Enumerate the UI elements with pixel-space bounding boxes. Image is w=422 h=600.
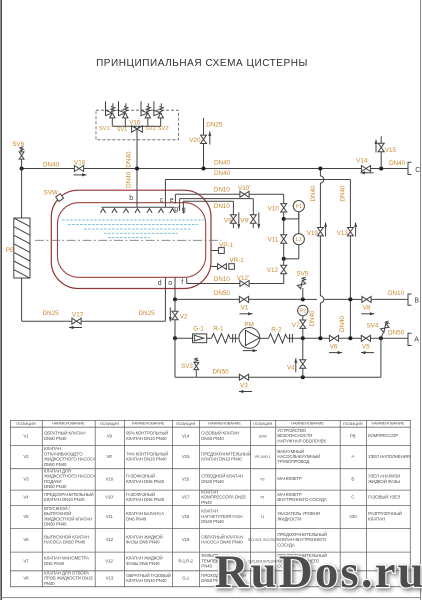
svg-text:VP-1/VR-1: VP-1/VR-1 [255,455,271,459]
node V7 column on L8 [301,336,305,340]
svg-text:V16: V16 [182,476,190,481]
wire: d-nozzle drop [164,277,166,321]
svg-text:V15: V15 [182,454,190,459]
label DN40 vertical V13 riser [340,185,347,202]
svg-text:DN50: DN50 [214,290,231,297]
svg-text:DN10: DN10 [214,276,231,283]
svg-text:A: A [414,337,419,344]
flow arrow at V15 [375,140,378,153]
svg-text:L1: L1 [296,237,302,243]
svg-text:SV2: SV2 [145,126,156,132]
svg-text:P2: P2 [261,477,265,481]
node V4 column on L9 [301,375,305,379]
svg-text:DN40: DN40 [339,315,346,332]
svg-text:ФАЗЫ DN6 PN40: ФАЗЫ DN6 PN40 [126,540,160,545]
svg-text:V12': V12' [237,275,249,282]
svg-text:V1: V1 [23,433,29,438]
label DN40 on L1 mid [214,160,231,167]
wire: SV5 stub [302,288,304,299]
svg-text:НАИМЕНОВАНИЕ: НАИМЕНОВАНИЕ [372,421,405,426]
svg-text:DN50: DN50 [388,329,405,336]
valve V3 [239,374,248,389]
pump PM [239,322,260,349]
wire: L6 DN10 line from nozzle f [187,278,240,284]
svg-text:V9: V9 [224,217,232,224]
svg-text:PB: PB [6,247,14,254]
label DN40 vertical above L1 [126,151,133,168]
svg-text:ЖИДКОЙ ФАЗЫ: ЖИДКОЙ ФАЗЫ [368,479,400,484]
flow arrow at V13 [354,223,357,237]
svg-text:V9': V9' [240,217,249,224]
wire: nozzle g dip tube [182,201,184,213]
level gauge L1 [293,234,304,245]
svg-text:R-2: R-2 [271,327,282,334]
flow arrow at V17 [69,326,82,329]
label DN50 on L9 [213,369,230,376]
relief valve V20 [189,135,206,144]
svg-text:PM: PM [244,322,253,329]
safety valve SV2' [154,101,164,126]
node junction at SV6/PB [20,167,24,171]
svg-text:V4: V4 [23,495,29,500]
wire: nozzle c riser [164,180,166,208]
svg-text:b: b [129,195,133,202]
svg-text:g': g' [174,206,179,213]
svg-text:V6: V6 [330,343,338,350]
node V13 riser on L8 [348,336,352,340]
flow arrow below pump [243,349,257,352]
svg-text:V4: V4 [287,364,295,371]
wire: V11 to V12 [283,243,285,265]
svg-text:V2: V2 [23,454,29,459]
legend table grid [10,420,411,587]
label DN10 on L3 [214,186,231,193]
wire: L7 liquid line (y=299.4) [175,298,408,300]
svg-text:f: f [181,279,183,286]
node o-line tee [173,297,177,301]
svg-text:V7: V7 [23,558,29,563]
svg-text:V10': V10' [238,185,250,192]
label SV2' [158,126,170,132]
label DN40 vertical V19 riser bottom [309,310,316,327]
svg-text:P1: P1 [261,496,265,500]
svg-text:V6: V6 [23,537,29,542]
svg-text:DN10: DN10 [214,186,231,193]
svg-text:DN40: DN40 [43,161,60,168]
nozzle label c [160,197,164,204]
svg-text:V7: V7 [292,322,300,329]
wire: L1 down to return [284,245,299,259]
label DN40 vertical V13 riser lower [339,315,346,332]
svg-text:SV6: SV6 [12,141,24,148]
svg-text:РВ: РВ [350,433,356,438]
nozzle label g [182,207,186,214]
svg-text:DN50 PN40: DN50 PN40 [44,484,67,489]
svg-text:DN25: DN25 [139,310,156,317]
wire: nozzle g' dip tube [179,199,181,211]
valve V7 [292,320,306,329]
wire: o-line down to L9 [175,338,196,377]
svg-text:V9': V9' [106,454,112,459]
wire: nozzle o drop [174,277,176,299]
node V20 on L1 [202,167,206,171]
svg-text:V10: V10 [268,205,280,212]
svg-text:НАИМЕНОВАНИЕ: НАИМЕНОВАНИЕ [132,421,165,426]
tank outer jacket [51,190,211,288]
valve V4 [287,360,306,372]
wire: PB down to DN25 line [21,278,23,321]
three-way valve V16 [129,120,142,133]
svg-text:КЛАПАН DN40 PN40: КЛАПАН DN40 PN40 [126,578,167,583]
svg-text:VR-1: VR-1 [229,257,244,264]
svg-text:B: B [414,297,419,304]
wire: V15 stub [380,136,382,168]
label DN50 at A [388,329,405,336]
svg-text:НАРУЖНАЯ ОБОЛОЧЕК: НАРУЖНАЯ ОБОЛОЧЕК [277,438,326,443]
node gauge branch [282,217,286,221]
valve V10 [268,204,287,213]
drawing frame right border [420,0,422,600]
wire: DN25 line (y=321.2) [22,320,166,322]
svg-text:V20: V20 [349,514,357,519]
svg-text:V11: V11 [106,514,114,519]
node V19 riser on L1 [318,167,322,171]
svg-text:o: o [168,280,172,287]
svg-text:DN25: DN25 [43,310,60,317]
svg-text:КЛАПАН DN10 PN40: КЛАПАН DN10 PN40 [201,457,242,462]
node V19 riser on L8 [318,336,322,340]
valve V2 [172,311,188,320]
valve V1 [239,296,248,311]
safety valve SV2 [141,101,151,126]
safety valve SV5 [296,271,308,289]
valve V12 [267,265,287,274]
flexible joint R-1 [212,325,236,343]
label SV1' [99,126,111,132]
svg-text:DN50 PN40: DN50 PN40 [44,436,67,441]
svg-text:ПОЗИЦИЯ: ПОЗИЦИЯ [16,421,35,426]
label DN10 on L4/L5 [214,203,231,210]
relief valve V15 [378,143,396,154]
wire: L9 line (y=377.2) [196,338,381,377]
svg-text:PN40: PN40 [201,563,212,568]
svg-text:c: c [160,197,164,204]
svg-text:DN50 PN40: DN50 PN40 [44,462,67,467]
safety device SVW [44,190,64,202]
svg-text:PN40: PN40 [201,500,212,505]
connection point B [408,294,419,305]
vacuum port VP-1 [211,242,233,253]
flow arrow at V20 [208,132,211,145]
svg-text:V18: V18 [74,160,86,167]
label DN10 on L6 [214,276,231,283]
liquid level line 2 [68,224,198,226]
svg-text:V14: V14 [182,433,190,438]
svg-text:ПОЗИЦИЯ: ПОЗИЦИЯ [253,421,272,426]
label DN40 at C [389,160,406,167]
svg-text:A: A [351,454,354,459]
nozzle label b [129,195,133,202]
wire: V19 riser from L1 [320,169,324,339]
liquid level line 3 [84,228,190,230]
valve V12' [237,275,249,287]
evaporator coil PB [6,218,30,278]
svg-text:SV1: SV1 [117,127,128,133]
svg-text:ПОЗИЦИЯ: ПОЗИЦИЯ [343,421,362,426]
svg-text:УЗЕЛ НАПОЛНЕНИЯ: УЗЕЛ НАПОЛНЕНИЯ [368,454,410,459]
svg-text:V19: V19 [182,537,190,542]
svg-text:V17: V17 [182,495,190,500]
valve V11 [268,235,287,244]
strainer G-1 [193,325,207,342]
label DN25 at V20 [206,122,223,129]
label DN40 at V18 [43,161,60,168]
svg-text:SV5: SV5 [296,271,308,278]
svg-text:V5: V5 [23,514,29,519]
svg-text:V13: V13 [337,230,349,237]
vent stub below V9' [252,223,254,228]
valve V2 on o-line [174,299,176,338]
wire: L5 line (y=201.3) [183,201,233,215]
legend table text [16,421,409,586]
wire: PB riser [21,169,23,219]
node o-line on L8 [173,336,177,340]
svg-text:DN40 PN40: DN40 PN40 [201,436,224,441]
check valve V19 [307,228,324,238]
svg-text:V10: V10 [106,476,114,481]
wire: V10 to junction [283,212,285,235]
svg-text:P2: P2 [300,308,307,314]
svg-text:ФАЗЫ DN6 PN40: ФАЗЫ DN6 PN40 [126,561,160,566]
label DN40 on L2 [214,170,231,177]
svg-text:V15: V15 [385,147,397,154]
svg-text:RuDos.ru: RuDos.ru [215,546,422,598]
svg-text:DN10: DN10 [388,290,405,297]
nozzle label e [170,197,174,204]
wire: branch to P1 column [284,212,299,219]
svg-text:B: B [351,476,354,481]
flow arrow at V14 [361,171,374,174]
svg-text:DN40: DN40 [340,185,347,202]
svg-text:G-1: G-1 [182,576,190,581]
flow arrow at V9' [257,213,260,229]
wire: L2 gas DN40 line (y=179.5) [165,180,350,228]
wire: V7 to L8 [302,328,304,338]
svg-text:V3: V3 [240,382,248,389]
svg-text:L1: L1 [261,515,265,519]
svg-text:V5: V5 [362,343,370,350]
liquid level line 4 [104,232,178,234]
svg-text:SV1': SV1' [99,126,111,132]
vent stub below V9 [232,223,234,228]
flexible joint R-2 [269,327,293,344]
wire: manifold header [112,125,160,127]
svg-text:DN10: DN10 [214,203,231,210]
title [96,58,308,69]
svg-text:SVW: SVW [44,190,58,197]
svg-text:НАСОСА DN40 PN40: НАСОСА DN40 PN40 [201,540,243,545]
node A junction [379,336,383,340]
svg-text:V10': V10' [105,495,113,500]
svg-text:C: C [351,495,354,500]
svg-text:НАИМЕНОВАНИЕ: НАИМЕНОВАНИЕ [208,421,241,426]
node V13 riser on B-line [348,297,352,301]
svg-text:V1: V1 [241,304,249,311]
svg-text:ПОЗИЦИЯ: ПОЗИЦИЯ [176,421,195,426]
wire: nozzle e riser [174,194,176,203]
nozzle label f [181,279,183,286]
safety valve SV6 [12,141,24,159]
node below V11 [282,257,286,261]
label DN50 on L7 [214,290,231,297]
svg-text:C: C [415,167,420,174]
svg-text:DN40 PN40: DN40 PN40 [201,519,224,524]
valve V10' [238,185,250,197]
svg-text:ЖИДКОСТИ: ЖИДКОСТИ [277,516,301,521]
svg-text:SV1,SV1',SV2,SV2': SV1,SV1',SV2,SV2' [248,538,278,542]
flow arrow at V18 [74,173,87,176]
valve V6 [329,335,338,350]
flow arrow at V3 [239,390,252,393]
wire: L3 DN10 line (y=194.3) [175,194,283,203]
wire: L4 line (y=198.6) [180,199,254,215]
svg-text:КЛАПАН DN6 PN40: КЛАПАН DN6 PN40 [126,479,165,484]
svg-text:R-1: R-1 [213,325,224,332]
svg-text:КЛАПАН DN10 PN40: КЛАПАН DN10 PN40 [44,497,85,502]
check valve V13 [337,228,354,238]
svg-text:DN6 PN40: DN6 PN40 [44,561,65,566]
svg-text:V17: V17 [72,312,84,319]
safety-valve manifold dashed enclosure [96,110,178,140]
flow arrow at V2 [169,308,172,322]
nozzle label d [158,280,162,287]
valve V9 [224,215,236,225]
wire: P2 to V7 [302,316,304,320]
safety valve SV4 [367,321,389,338]
wire: V12 down to L6 [249,274,284,284]
label DN25 left [43,310,60,317]
svg-text:V16: V16 [129,120,141,127]
safety valve SV1' [106,101,116,126]
svg-text:ПОЗИЦИЯ: ПОЗИЦИЯ [100,421,119,426]
svg-text:DN40: DN40 [214,160,231,167]
svg-text:V19: V19 [307,230,319,237]
svg-text:DN40: DN40 [214,170,231,177]
flow arrow at V19 [324,223,327,237]
svg-text:V12: V12 [106,537,114,542]
svg-text:SVW: SVW [259,434,268,438]
svg-text:DN40: DN40 [126,171,133,188]
safety valve SV3 [181,358,199,377]
svg-text:DN50: DN50 [213,369,230,376]
svg-text:V9: V9 [107,433,113,438]
svg-text:DN40: DN40 [309,310,316,327]
svg-text:КЛАПАН: КЛАПАН [368,516,385,521]
svg-text:DN25 PN40: DN25 PN40 [201,479,224,484]
svg-text:НАСОСА DN50 PN40: НАСОСА DN50 PN40 [44,540,86,545]
svg-text:КОМПРЕССОР: КОМПРЕССОР [368,433,398,438]
connection point C [408,162,420,174]
svg-text:НАИМЕНОВАНИЕ: НАИМЕНОВАНИЕ [52,421,85,426]
wire: V16 down to tank nozzle b [136,129,138,207]
spray header (sparger) with nozzles [100,207,175,213]
valve V9' [240,215,256,225]
svg-text:КЛАПАН DN6 PN40: КЛАПАН DN6 PN40 [126,497,165,502]
svg-text:G-1: G-1 [193,325,204,332]
svg-text:P1: P1 [296,204,303,210]
svg-text:V18: V18 [182,514,190,519]
label SV1 [117,127,128,133]
svg-text:ТРУБОПРОВОД: ТРУБОПРОВОД [277,459,309,464]
label SV2 [145,126,156,132]
svg-text:DN6 PN40: DN6 PN40 [126,516,147,521]
wire: SV6 stub [21,149,23,169]
svg-text:e: e [170,197,174,204]
nozzle label o [168,280,172,287]
svg-text:V13: V13 [106,576,114,581]
liquid level line 1 [62,219,204,221]
pressure gauge P1 [293,201,304,212]
vacuum relief VR-1 [211,257,244,269]
wire: V4 column [302,338,304,377]
svg-text:DN50 PN40: DN50 PN40 [44,522,67,527]
wire: P1 to L1 [298,212,300,234]
flow arrow at V5 [361,351,374,354]
wire: V13 riser [349,236,351,338]
flow arrow at V4 [294,358,297,372]
svg-text:SV2': SV2' [158,126,170,132]
tank centerline (dash-dot) [35,239,221,241]
label DN10 at B [388,290,405,297]
svg-text:ГАЗОВЫЙ УЗЕЛ: ГАЗОВЫЙ УЗЕЛ [368,495,400,500]
svg-text:PN40: PN40 [44,581,55,586]
svg-text:DN40: DN40 [389,160,406,167]
svg-text:V8: V8 [23,576,29,581]
drawing frame left border [0,0,2,600]
valve V5 [361,335,370,350]
valve V8 [362,296,371,311]
pressure gauge P2 [298,305,308,315]
svg-text:DN40: DN40 [126,151,133,168]
connection point A [408,333,419,345]
svg-text:ВНУТРЕННЕГО СОСУДА: ВНУТРЕННЕГО СОСУДА [277,497,327,502]
svg-text:V3: V3 [23,476,29,481]
wire: V20 stub [203,118,205,169]
svg-text:d: d [158,280,162,287]
safety valve SV1 [119,101,129,126]
svg-text:V12': V12' [105,558,113,563]
wire: L1 main DN40 header (y=168.5) [22,168,408,170]
svg-text:V20: V20 [189,137,201,144]
svg-text:DN40: DN40 [310,185,317,202]
label DN40 vertical V19 riser top [310,185,317,202]
svg-text:VP-1: VP-1 [219,242,233,249]
svg-text:НАИМЕНОВАНИЕ: НАИМЕНОВАНИЕ [291,421,324,426]
svg-text:КЛАПАН DN10 PN40: КЛАПАН DN10 PN40 [126,436,167,441]
valve V14 [356,157,370,171]
node V16 line on L1 [135,167,139,171]
svg-text:V2: V2 [180,313,188,320]
valve V18 [74,160,86,172]
svg-text:V14: V14 [356,157,368,164]
tank inner vessel [58,203,206,278]
watermark RuDos.ru [215,546,422,598]
label DN40 vertical below L1 [126,171,133,188]
flow arrow at V9 [237,213,240,229]
svg-text:R-1,R-2: R-1,R-2 [178,558,193,563]
nozzle label g' [174,206,179,213]
svg-text:V11: V11 [268,237,279,244]
